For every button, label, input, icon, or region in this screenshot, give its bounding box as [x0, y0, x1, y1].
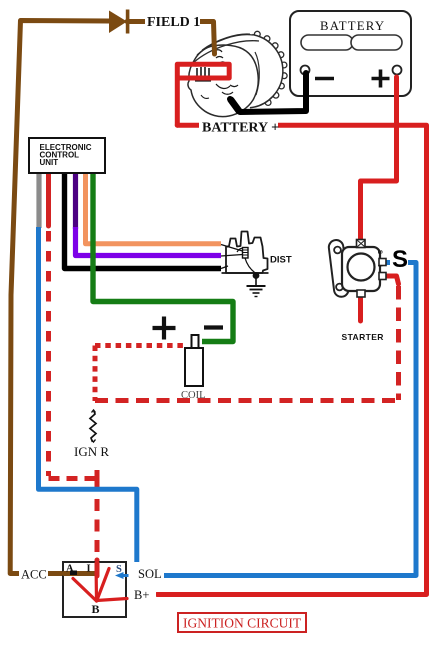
svg-text:IGN R: IGN R — [74, 444, 109, 459]
svg-text:DIST: DIST — [270, 255, 292, 266]
svg-text:FIELD 1: FIELD 1 — [147, 15, 200, 30]
svg-text:I: I — [87, 564, 91, 575]
svg-text:B+: B+ — [134, 588, 149, 602]
svg-text:SOL: SOL — [138, 567, 162, 581]
svg-text:S: S — [116, 564, 122, 575]
svg-text:B: B — [92, 602, 100, 616]
svg-text:S: S — [376, 250, 382, 254]
svg-text:IGNITION CIRCUIT: IGNITION CIRCUIT — [183, 616, 302, 631]
svg-text:ACC: ACC — [21, 568, 47, 582]
svg-text:COIL: COIL — [181, 390, 206, 401]
svg-text:BATTERY: BATTERY — [320, 19, 385, 33]
svg-text:STARTER: STARTER — [342, 332, 384, 342]
svg-text:UNIT: UNIT — [40, 158, 59, 167]
svg-text:A: A — [66, 564, 74, 575]
svg-text:BATTERY +: BATTERY + — [202, 121, 279, 136]
svg-text:S: S — [392, 246, 408, 273]
